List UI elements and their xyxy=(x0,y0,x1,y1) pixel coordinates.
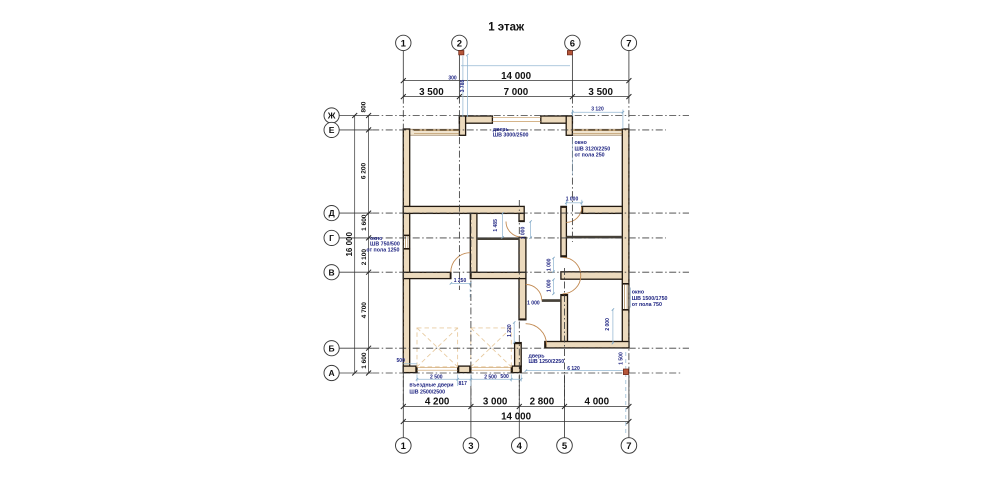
svg-text:1 485: 1 485 xyxy=(493,219,499,232)
svg-text:1 600: 1 600 xyxy=(361,214,368,231)
svg-text:от пола 750: от пола 750 xyxy=(632,302,662,308)
svg-text:Г: Г xyxy=(329,233,334,243)
svg-text:Б: Б xyxy=(329,343,335,353)
svg-text:от пола 250: от пола 250 xyxy=(575,152,605,158)
svg-text:окно: окно xyxy=(575,140,588,146)
svg-text:1: 1 xyxy=(401,441,407,452)
svg-text:ШВ 1500/1750: ШВ 1500/1750 xyxy=(632,296,668,302)
svg-text:2 800: 2 800 xyxy=(530,397,555,408)
svg-text:2 000: 2 000 xyxy=(605,318,611,331)
svg-text:4: 4 xyxy=(517,441,523,452)
svg-text:ШВ 2500/2500: ШВ 2500/2500 xyxy=(409,389,445,395)
svg-text:7 000: 7 000 xyxy=(504,87,529,98)
svg-text:16 000: 16 000 xyxy=(345,232,354,257)
svg-text:3: 3 xyxy=(468,441,473,452)
svg-text:3 785: 3 785 xyxy=(460,80,466,93)
svg-text:1 этаж: 1 этаж xyxy=(488,22,525,34)
svg-text:500: 500 xyxy=(397,358,406,364)
svg-text:4 700: 4 700 xyxy=(361,302,368,319)
svg-text:6 200: 6 200 xyxy=(361,162,368,179)
svg-text:800: 800 xyxy=(361,101,368,112)
svg-text:ШВ 3000/2500: ШВ 3000/2500 xyxy=(493,133,529,139)
svg-text:6: 6 xyxy=(570,38,575,49)
svg-text:1 250: 1 250 xyxy=(454,278,467,284)
svg-text:окно: окно xyxy=(632,290,645,296)
svg-text:300: 300 xyxy=(448,76,457,82)
svg-text:14 000: 14 000 xyxy=(501,412,532,423)
svg-text:А: А xyxy=(329,368,335,378)
svg-text:3 500: 3 500 xyxy=(588,87,613,98)
svg-text:2: 2 xyxy=(457,38,462,49)
svg-text:7: 7 xyxy=(626,441,631,452)
svg-text:14 000: 14 000 xyxy=(501,71,532,82)
svg-text:4 200: 4 200 xyxy=(425,397,450,408)
svg-text:1 500: 1 500 xyxy=(619,352,625,365)
svg-text:5: 5 xyxy=(562,441,568,452)
svg-text:4 000: 4 000 xyxy=(585,397,610,408)
svg-text:1 220: 1 220 xyxy=(507,324,513,337)
svg-text:3 000: 3 000 xyxy=(483,397,508,408)
svg-text:3 120: 3 120 xyxy=(591,107,604,113)
svg-text:1 000: 1 000 xyxy=(566,196,579,202)
svg-text:2 500: 2 500 xyxy=(430,374,443,380)
svg-text:817: 817 xyxy=(459,381,468,387)
svg-text:1 000: 1 000 xyxy=(521,227,527,240)
svg-text:въездные двери: въездные двери xyxy=(409,383,453,389)
svg-text:1 000: 1 000 xyxy=(547,279,553,292)
svg-text:ШВ 1250/2250: ШВ 1250/2250 xyxy=(529,359,565,365)
svg-text:1 000: 1 000 xyxy=(527,301,540,307)
svg-text:1: 1 xyxy=(401,38,407,49)
svg-text:В: В xyxy=(329,267,335,277)
svg-text:3 500: 3 500 xyxy=(419,87,444,98)
svg-text:2 500: 2 500 xyxy=(484,374,497,380)
svg-text:500: 500 xyxy=(500,374,509,380)
svg-text:6 120: 6 120 xyxy=(567,366,580,372)
svg-text:Е: Е xyxy=(329,125,335,135)
svg-text:Д: Д xyxy=(329,208,335,218)
svg-text:1 600: 1 600 xyxy=(361,352,368,369)
svg-text:1 000: 1 000 xyxy=(547,258,553,271)
svg-text:Ж: Ж xyxy=(327,111,336,121)
svg-text:от пола 1250: от пола 1250 xyxy=(366,247,399,253)
svg-text:7: 7 xyxy=(626,38,631,49)
